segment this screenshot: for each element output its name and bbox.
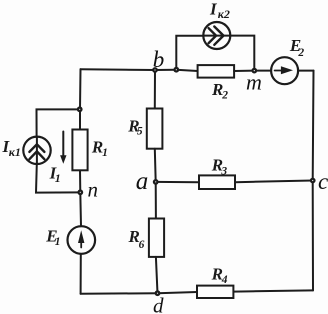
wire R6 to node d — [156, 257, 158, 293]
svg-text:c: c — [318, 169, 328, 194]
wire E1 to node n — [79, 192, 82, 226]
label R5 — [127, 116, 143, 137]
svg-text:m: m — [246, 70, 262, 95]
current source Ik1 — [23, 137, 50, 164]
wire Ik2 branch right stub to node m — [230, 36, 254, 71]
label R6 — [128, 227, 145, 251]
label n — [88, 178, 99, 202]
node b — [152, 67, 158, 73]
wire node a to R6 — [155, 182, 157, 219]
wire R2 right to node m — [234, 70, 254, 72]
wire right rail top (corner to node c) — [312, 71, 315, 181]
wire right rail bottom (node c to corner) — [312, 181, 314, 291]
resistor R2 — [198, 65, 235, 78]
label E2 — [289, 36, 305, 59]
wire node b down to R5 — [154, 70, 156, 108]
svg-text:1: 1 — [102, 147, 108, 159]
resistor R6 — [149, 219, 164, 257]
node m — [251, 68, 257, 74]
label R2 — [211, 80, 228, 102]
label R1 — [91, 137, 108, 159]
wire E2 to top right corner — [298, 70, 313, 72]
source E2 — [271, 57, 298, 84]
wire bottom right (corner to R4) — [233, 290, 313, 291]
wire node b to junction of Ik2 branch — [155, 69, 176, 71]
node n — [77, 189, 83, 195]
label m — [246, 70, 262, 95]
label Ik1 — [2, 137, 21, 159]
wire Ik1 branch top — [37, 109, 81, 136]
svg-text:d: d — [153, 294, 164, 314]
svg-text:n: n — [88, 178, 99, 202]
node junction left (Ik1 top) — [77, 106, 83, 112]
svg-text:5: 5 — [137, 125, 143, 137]
svg-text:b: b — [153, 47, 165, 72]
svg-text:к1: к1 — [9, 145, 21, 159]
label d — [153, 294, 164, 314]
wire R4 to node d — [158, 292, 198, 293]
label a — [136, 168, 149, 195]
svg-text:1: 1 — [55, 236, 61, 248]
wire R1 top to junction — [79, 109, 81, 130]
svg-text:2: 2 — [221, 90, 228, 102]
svg-text:3: 3 — [220, 165, 227, 177]
resistor R5 — [147, 109, 163, 149]
wire junction to top left corner — [79, 69, 82, 108]
wire R3 to node c — [235, 181, 313, 183]
wire R5 to node a — [154, 149, 157, 182]
node junction right of b — [173, 67, 179, 73]
label E1 — [45, 227, 60, 248]
wire node a to R3 — [156, 181, 199, 183]
resistor R1 — [72, 130, 87, 171]
wire junction to R2 left — [176, 70, 197, 71]
wire node d to bottom left corner — [81, 292, 158, 295]
wire node m to E2 — [254, 70, 271, 72]
label R4 — [211, 265, 228, 286]
label R3 — [211, 156, 228, 178]
svg-text:I: I — [209, 0, 218, 19]
node c — [310, 178, 316, 184]
label I1 — [49, 163, 61, 184]
svg-text:6: 6 — [139, 239, 145, 251]
wire bottom left corner up to E1 — [80, 254, 82, 294]
svg-text:4: 4 — [221, 274, 228, 286]
current source Ik2 — [203, 22, 230, 49]
node a — [153, 179, 159, 185]
resistor R4 — [197, 286, 233, 298]
svg-text:a: a — [136, 168, 149, 195]
wire Ik2 branch left stub — [176, 36, 203, 70]
current arrow I1 — [60, 132, 66, 164]
node d — [155, 290, 161, 296]
svg-text:к2: к2 — [218, 7, 230, 21]
svg-text:1: 1 — [55, 171, 61, 185]
wire node n to R1 bottom — [79, 170, 81, 192]
wire top left horizontal (corner to node b) — [81, 68, 156, 71]
label b — [153, 47, 165, 72]
label Ik2 — [209, 0, 230, 21]
wire Ik1 branch bottom to node n — [36, 164, 80, 193]
label c — [318, 169, 328, 194]
resistor R3 — [199, 175, 235, 189]
svg-text:2: 2 — [297, 47, 304, 59]
source E1 — [68, 226, 96, 254]
